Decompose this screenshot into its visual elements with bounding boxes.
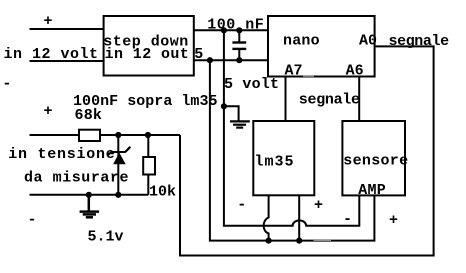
gray artifact dash near lm35 plus bbox=[314, 239, 332, 241]
svg-text:5: 5 bbox=[194, 46, 203, 63]
box nano U2 bbox=[268, 16, 375, 77]
junction tensione- / ground stem bbox=[86, 192, 92, 198]
svg-text:+: + bbox=[44, 103, 53, 120]
wire A7 to lm35 bbox=[285, 77, 287, 122]
ground near nano bbox=[230, 121, 250, 127]
wire tensione + bbox=[30, 134, 181, 136]
wire 5V rail bbox=[194, 59, 268, 61]
wire zener branch bbox=[117, 135, 119, 195]
wire lm35 plus bbox=[298, 195, 300, 240]
svg-text:lm35: lm35 bbox=[255, 153, 295, 170]
svg-text:AMP: AMP bbox=[358, 182, 386, 199]
svg-text:10k: 10k bbox=[149, 183, 176, 200]
svg-text:in tensione: in tensione bbox=[8, 146, 115, 163]
junction lm35 minus / 5V bottom wire bbox=[266, 238, 272, 244]
wire 5V vertical to sensore plus bbox=[210, 60, 375, 240]
zener diode D1 5.1v bbox=[108, 147, 130, 164]
wire gnd vertical to sensore minus bbox=[224, 30, 359, 225]
svg-text:da misurare: da misurare bbox=[24, 169, 129, 186]
wire lm35 minus with hop bbox=[264, 195, 269, 240]
svg-text:in 12 volt: in 12 volt bbox=[4, 46, 99, 63]
svg-text:100 nF: 100 nF bbox=[207, 17, 264, 34]
svg-text:5.1v: 5.1v bbox=[88, 229, 124, 246]
resistor 10k R2 bbox=[143, 157, 155, 175]
svg-text:+: + bbox=[389, 212, 398, 229]
box step down U1 bbox=[104, 16, 194, 76]
wire A6 to sensore bbox=[358, 77, 360, 122]
capacitor C 100nF plates bbox=[232, 43, 246, 49]
svg-text:-: - bbox=[343, 211, 352, 228]
svg-text:-: - bbox=[237, 196, 246, 213]
wire input - 12V bbox=[30, 60, 104, 62]
wire A0 segnale loop bbox=[180, 46, 434, 255]
svg-text:segnale: segnale bbox=[299, 91, 360, 108]
junction tensione+ / 10k top bbox=[145, 132, 151, 138]
svg-text:68k: 68k bbox=[75, 107, 103, 124]
box lm35 U3 bbox=[253, 121, 314, 195]
svg-text:A6: A6 bbox=[346, 63, 364, 80]
junction gnd rail / gnd vertical bbox=[221, 27, 227, 33]
svg-text:+: + bbox=[314, 197, 323, 214]
wire tensione - bbox=[30, 194, 149, 196]
junction lm35 plus / 5V bottom wire bbox=[296, 238, 302, 244]
box sensore AMP U4 bbox=[342, 121, 405, 195]
svg-text:segnale: segnale bbox=[389, 33, 450, 50]
junction 5V rail / 5V vertical bbox=[207, 57, 213, 63]
junction gnd rail / capacitor top bbox=[236, 27, 242, 33]
junction tensione- / zener bottom bbox=[115, 192, 121, 198]
svg-text:5 volt: 5 volt bbox=[224, 76, 279, 93]
svg-text:+: + bbox=[44, 13, 53, 30]
ground bottom left bbox=[80, 195, 100, 217]
svg-text:sensore: sensore bbox=[343, 153, 408, 170]
gray artifact dash under A7 bbox=[303, 75, 314, 77]
svg-text:nano: nano bbox=[283, 32, 320, 49]
svg-text:in 12 out: in 12 out bbox=[105, 46, 190, 63]
wire gnd tap bbox=[224, 106, 239, 120]
svg-text:-: - bbox=[28, 211, 37, 228]
junction tensione+ / zener top bbox=[115, 132, 121, 138]
svg-text:A7: A7 bbox=[285, 63, 303, 80]
wire gnd rail top bbox=[194, 29, 268, 31]
svg-text:A0: A0 bbox=[359, 32, 377, 49]
junction gnd vertical / gnd tap bbox=[221, 103, 227, 109]
svg-text:-: - bbox=[2, 75, 11, 92]
wire 10k branch bbox=[147, 135, 149, 195]
wire input + 12V bbox=[30, 28, 104, 30]
resistor 68k R1 bbox=[79, 130, 100, 141]
capacitor C 100nF stubs bbox=[238, 30, 240, 42]
junction 5V rail / capacitor bottom bbox=[236, 57, 242, 63]
